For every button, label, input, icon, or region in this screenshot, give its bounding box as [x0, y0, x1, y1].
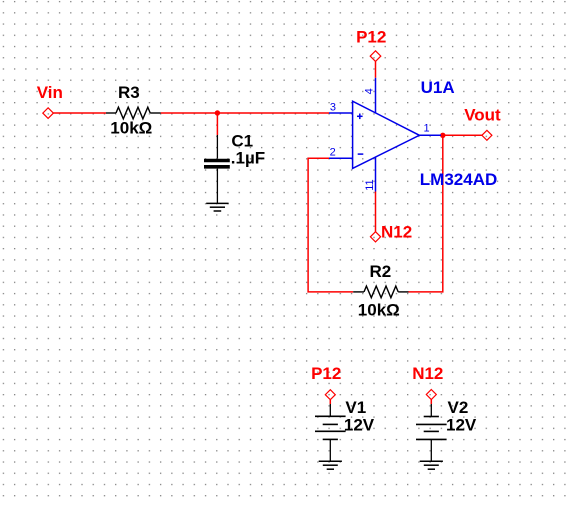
svg-text:3: 3 — [330, 101, 336, 113]
svg-text:V1: V1 — [345, 398, 366, 417]
svg-text:Vin: Vin — [37, 83, 63, 102]
svg-text:12V: 12V — [446, 416, 477, 435]
svg-text:10kΩ: 10kΩ — [358, 301, 400, 320]
svg-text:U1A: U1A — [421, 78, 455, 97]
svg-text:11: 11 — [364, 179, 376, 190]
svg-text:LM324AD: LM324AD — [420, 170, 497, 189]
svg-text:2: 2 — [330, 147, 336, 159]
svg-text:N12: N12 — [381, 223, 412, 242]
svg-text:Vout: Vout — [464, 105, 501, 124]
svg-text:R2: R2 — [370, 262, 392, 281]
svg-text:P12: P12 — [311, 364, 341, 383]
svg-text:.1µF: .1µF — [231, 148, 265, 167]
svg-text:P12: P12 — [356, 27, 386, 46]
svg-text:V2: V2 — [448, 398, 469, 417]
svg-text:1: 1 — [423, 123, 429, 135]
svg-text:N12: N12 — [412, 364, 443, 383]
svg-text:4: 4 — [364, 88, 376, 94]
svg-text:12V: 12V — [344, 416, 375, 435]
svg-text:R3: R3 — [118, 83, 140, 102]
svg-text:10kΩ: 10kΩ — [110, 118, 152, 137]
